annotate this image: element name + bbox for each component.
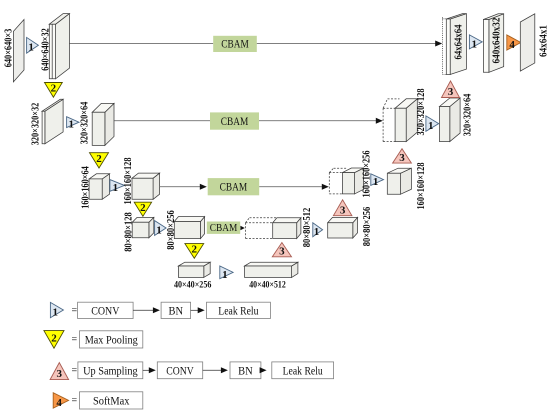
svg-text:3: 3	[399, 152, 405, 164]
svg-text:CONV: CONV	[91, 303, 119, 317]
svg-text:CBAM: CBAM	[221, 116, 249, 128]
svg-text:1: 1	[113, 182, 119, 194]
svg-text:1: 1	[28, 42, 34, 54]
svg-text:CBAM: CBAM	[220, 181, 248, 193]
svg-text:1: 1	[69, 119, 75, 131]
svg-text:320×320×32: 320×320×32	[31, 103, 42, 146]
svg-text:80×80×256: 80×80×256	[166, 210, 177, 250]
svg-text:Max Pooling: Max Pooling	[85, 332, 138, 346]
svg-text:Leak Relu: Leak Relu	[283, 363, 323, 377]
svg-text:640x640x32: 640x640x32	[492, 18, 503, 64]
svg-text:64x64x64: 64x64x64	[454, 24, 465, 60]
svg-text:320×320×64: 320×320×64	[462, 93, 473, 136]
svg-text:CBAM: CBAM	[210, 223, 238, 234]
svg-text:1: 1	[373, 176, 379, 188]
svg-text:320×320×64: 320×320×64	[80, 101, 91, 144]
svg-text:1: 1	[428, 120, 434, 132]
svg-text:80×80×256: 80×80×256	[362, 207, 373, 247]
svg-text:160×160×128: 160×160×128	[123, 158, 134, 205]
svg-text:3: 3	[279, 246, 285, 258]
svg-text:80×80×128: 80×80×128	[123, 212, 134, 252]
svg-text:=: =	[71, 305, 77, 316]
svg-text:CBAM: CBAM	[221, 39, 249, 51]
svg-text:=: =	[71, 396, 77, 407]
svg-text:BN: BN	[238, 363, 253, 377]
svg-text:3: 3	[340, 204, 346, 216]
svg-text:Up Sampling: Up Sampling	[83, 363, 138, 377]
svg-text:640×640×3: 640×640×3	[3, 29, 14, 68]
svg-text:160×160×128: 160×160×128	[416, 163, 427, 210]
svg-text:CONV: CONV	[166, 363, 194, 377]
svg-text:2: 2	[96, 153, 102, 165]
svg-text:40×40×256: 40×40×256	[174, 280, 212, 291]
svg-text:640×640×32: 640×640×32	[40, 28, 51, 71]
svg-text:2: 2	[51, 333, 57, 345]
svg-text:3: 3	[57, 368, 63, 380]
svg-text:4: 4	[509, 39, 515, 51]
svg-text:1: 1	[156, 224, 162, 236]
svg-text:64x64x1: 64x64x1	[538, 25, 549, 57]
svg-text:1: 1	[222, 269, 228, 281]
svg-text:2: 2	[140, 202, 146, 214]
svg-text:160×160×64: 160×160×64	[81, 166, 92, 209]
svg-text:=: =	[71, 365, 77, 376]
svg-text:=: =	[71, 334, 77, 345]
svg-text:1: 1	[53, 307, 59, 319]
svg-text:80×80×512: 80×80×512	[302, 208, 313, 248]
svg-text:1: 1	[472, 38, 478, 50]
svg-text:2: 2	[192, 244, 198, 256]
svg-text:2: 2	[51, 83, 57, 95]
svg-text:Leak Relu: Leak Relu	[218, 303, 258, 317]
svg-text:4: 4	[56, 397, 62, 409]
svg-text:BN: BN	[169, 303, 184, 317]
svg-text:3: 3	[448, 86, 454, 98]
svg-text:SoftMax: SoftMax	[93, 393, 130, 407]
svg-text:40×40×512: 40×40×512	[249, 279, 286, 290]
svg-text:1: 1	[314, 226, 320, 238]
